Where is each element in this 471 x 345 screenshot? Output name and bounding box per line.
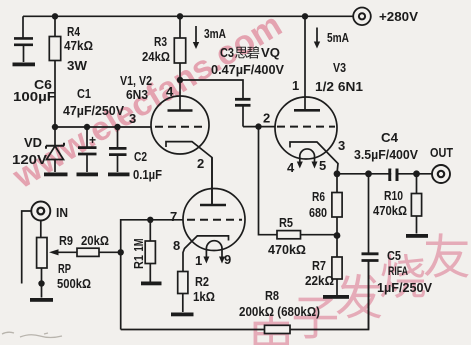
- V1 cathode: [166, 142, 212, 205]
- svg-text:IN: IN: [56, 205, 68, 220]
- svg-text:200kΩ (680kΩ): 200kΩ (680kΩ): [239, 304, 320, 319]
- label R9 value: [59, 233, 109, 248]
- wire RP bottom to ground: [41, 284, 43, 298]
- label C5 value: [377, 248, 432, 295]
- wire V2 grid lead: [121, 220, 183, 330]
- wire IN to ground branch: [22, 211, 32, 284]
- resistor R9: [77, 248, 121, 256]
- watermark 电子发烧友: [254, 233, 469, 345]
- svg-text:1: 1: [195, 253, 202, 268]
- node top rail / R4: [52, 13, 58, 19]
- node R10 / C4 / OUT: [413, 170, 420, 177]
- terminal OUT: [432, 165, 450, 183]
- svg-text:5: 5: [319, 158, 326, 173]
- faint pencil marks bottom-left: [2, 332, 62, 337]
- label V1 V2 tube: [120, 73, 152, 102]
- resistor R7: [332, 236, 342, 296]
- svg-text:R8: R8: [265, 288, 279, 303]
- capacitor C1 (electrolytic, +): [78, 127, 97, 172]
- label R7 value: [305, 258, 334, 288]
- node C5 top: [365, 170, 372, 177]
- svg-text:+: +: [89, 133, 96, 147]
- node R6 / R5 / R7: [334, 232, 341, 239]
- V3 plate: [294, 16, 320, 110]
- label R2 value: [193, 274, 215, 304]
- resistor R2: [178, 272, 188, 313]
- resistor R4: [49, 16, 60, 127]
- label C1 value: [63, 86, 124, 118]
- svg-text:R1: R1: [131, 255, 146, 269]
- wire C3 to V3 grid: [243, 126, 275, 128]
- capacitor C5: [362, 174, 379, 330]
- svg-text:20kΩ: 20kΩ: [81, 233, 109, 248]
- capacitor C3: [235, 99, 251, 126]
- svg-text:V1, V2: V1, V2: [120, 73, 152, 88]
- wire V3 cathode rail to OUT: [337, 173, 432, 175]
- watermark www.elecfans.com: [6, 6, 289, 197]
- svg-text:RIFA: RIFA: [388, 264, 408, 278]
- svg-text:6N3: 6N3: [126, 87, 148, 102]
- svg-text:3: 3: [129, 111, 136, 126]
- svg-text:4: 4: [287, 160, 295, 175]
- svg-text:R4: R4: [67, 24, 81, 39]
- resistor R1: [145, 220, 155, 282]
- label R4 value: [64, 24, 93, 73]
- V2 cathode: [183, 236, 229, 272]
- label R3 value: [142, 34, 170, 64]
- label V3 tube: [315, 60, 363, 94]
- capacitor C4: [388, 169, 398, 182]
- svg-text:680: 680: [309, 205, 327, 220]
- svg-text:5mA: 5mA: [327, 30, 349, 45]
- svg-text:C5: C5: [387, 248, 401, 263]
- svg-text:VD: VD: [24, 135, 42, 150]
- svg-text:C3: C3: [220, 45, 234, 60]
- label R10 value: [373, 188, 407, 218]
- resistor R3: [174, 16, 185, 80]
- ground below R1: [141, 282, 162, 286]
- svg-text:3W: 3W: [67, 58, 88, 73]
- svg-text:1µF/250V: 1µF/250V: [377, 280, 432, 295]
- ground below R10: [406, 234, 428, 238]
- resistor R10: [411, 174, 421, 234]
- V3 heater: [297, 149, 318, 169]
- node top rail / R3: [177, 13, 183, 19]
- node C3 / R5 branch: [255, 123, 261, 129]
- ground below C1: [77, 173, 99, 177]
- capacitor C2: [109, 127, 127, 172]
- svg-text:1M: 1M: [131, 239, 146, 252]
- svg-text:R5: R5: [279, 215, 293, 230]
- V1 plate: [168, 80, 193, 111]
- ground below C2: [108, 173, 130, 177]
- resistor R5: [259, 127, 338, 239]
- svg-text:R2: R2: [195, 274, 209, 289]
- ground below R2: [171, 313, 194, 317]
- terminal IN: [31, 202, 50, 221]
- ground below RP: [30, 298, 53, 302]
- current arrow 5mA: [314, 28, 320, 49]
- svg-text:3.5µF/400V: 3.5µF/400V: [354, 147, 418, 162]
- triode V3 envelope: [275, 97, 337, 159]
- label RP value: [57, 261, 91, 291]
- svg-text:8: 8: [173, 238, 180, 253]
- V2 grid (dashed): [187, 219, 242, 221]
- wire C6 top lead: [22, 16, 24, 37]
- svg-text:C4: C4: [381, 130, 399, 145]
- svg-text:R10: R10: [384, 188, 403, 203]
- terminal +280V: [353, 7, 371, 25]
- label VD value: [12, 135, 47, 167]
- svg-text:47kΩ: 47kΩ: [64, 38, 93, 53]
- svg-text:+280V: +280V: [379, 9, 418, 24]
- svg-text:24kΩ: 24kΩ: [142, 49, 170, 64]
- svg-text:R7: R7: [312, 258, 326, 273]
- wire node to C3: [180, 80, 243, 99]
- ground below R7: [323, 295, 349, 299]
- V1 grid (dashed): [155, 126, 206, 128]
- svg-text:OUT: OUT: [430, 145, 453, 160]
- node R9 / grid drop wire: [118, 249, 124, 255]
- svg-text:R9: R9: [59, 233, 73, 248]
- wire top supply rail: [23, 15, 353, 17]
- svg-text:9: 9: [224, 252, 231, 267]
- label R8 value: [239, 288, 320, 319]
- current arrow 3mA: [193, 26, 199, 49]
- svg-text:R3: R3: [154, 34, 167, 49]
- svg-text:C1: C1: [77, 86, 91, 101]
- V2 heater: [203, 241, 225, 264]
- label R5 value: [268, 215, 306, 257]
- V2 plate: [200, 158, 226, 206]
- svg-text:C2: C2: [134, 149, 147, 164]
- node R4 bottom / VD / C1 C2 rail: [52, 124, 58, 130]
- resistor R6: [332, 174, 342, 236]
- svg-text:120V: 120V: [12, 152, 47, 167]
- node cathode / R6: [334, 170, 341, 177]
- node top rail / V3 plate: [302, 13, 308, 19]
- node R3 bottom / V1 plate / C3 branch: [177, 77, 183, 83]
- triode V2 envelope: [183, 189, 245, 251]
- label R6 value: [309, 189, 327, 220]
- triode V1 envelope: [151, 96, 209, 154]
- node RP bottom / IN return: [38, 280, 44, 286]
- svg-text:2: 2: [197, 156, 204, 171]
- svg-text:22kΩ: 22kΩ: [305, 273, 334, 288]
- svg-text:3mA: 3mA: [204, 26, 226, 41]
- label C4 value: [354, 130, 418, 162]
- svg-text:VQ: VQ: [261, 45, 280, 60]
- V3 grid (dashed): [277, 126, 335, 128]
- capacitor C6: [14, 38, 33, 62]
- svg-text:4: 4: [166, 84, 174, 99]
- svg-text:0.47µF/400V: 0.47µF/400V: [211, 62, 284, 77]
- svg-text:V3: V3: [333, 60, 346, 75]
- label C2 value: [133, 149, 162, 182]
- svg-text:100µF: 100µF: [13, 89, 56, 104]
- ground below VD: [44, 173, 68, 177]
- svg-text:2: 2: [263, 111, 270, 126]
- node R1 / V2 grid: [147, 217, 153, 223]
- svg-text:7: 7: [170, 209, 177, 224]
- svg-text:3: 3: [338, 138, 345, 153]
- svg-text:47µF/250V: 47µF/250V: [63, 103, 124, 118]
- potentiometer RP: [37, 221, 77, 284]
- svg-text:0.1µF: 0.1µF: [133, 167, 162, 182]
- node C1: [84, 124, 90, 130]
- label C3 value: [211, 45, 284, 77]
- wire V1 grid lead: [55, 126, 151, 128]
- resistor R8: [265, 325, 291, 333]
- ground below C6: [13, 63, 36, 67]
- svg-text:1kΩ: 1kΩ: [193, 289, 215, 304]
- V3 cathode: [290, 142, 338, 174]
- svg-text:1/2 6N1: 1/2 6N1: [315, 79, 363, 94]
- svg-text:470kΩ: 470kΩ: [373, 203, 407, 218]
- svg-text:470kΩ: 470kΩ: [268, 242, 306, 257]
- svg-text:R6: R6: [312, 189, 325, 204]
- node C2: [114, 124, 120, 130]
- svg-text:RP: RP: [58, 261, 71, 276]
- wire bottom rail: [121, 261, 369, 330]
- svg-text:500kΩ: 500kΩ: [57, 276, 91, 291]
- zener diode VD: [46, 127, 64, 172]
- svg-text:1: 1: [292, 78, 299, 93]
- label C6 value: [13, 77, 56, 104]
